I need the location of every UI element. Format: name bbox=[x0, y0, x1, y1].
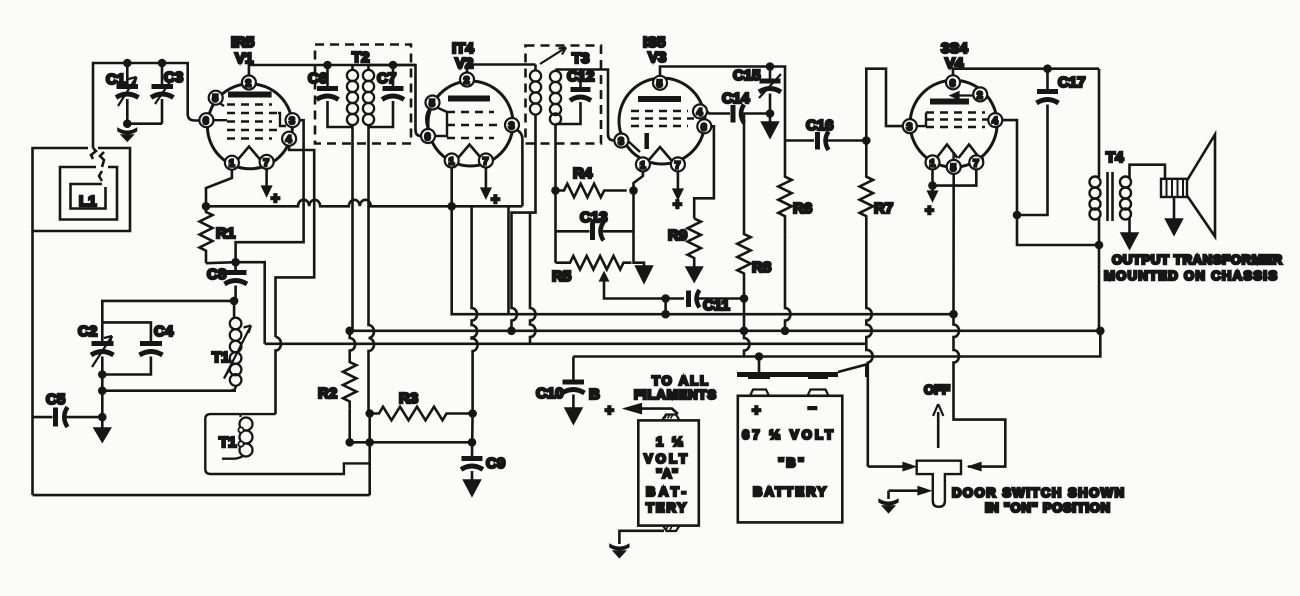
svg-text:R1: R1 bbox=[216, 225, 235, 242]
capacitor C4 bbox=[102, 322, 174, 374]
capacitor C9 bbox=[461, 414, 505, 497]
wire antenna top bbox=[93, 63, 200, 148]
wire T2 secondary lead lower segment to rail bbox=[368, 414, 371, 496]
ground below C2/C4 node bbox=[94, 428, 111, 442]
svg-text:−: − bbox=[808, 400, 817, 417]
wire T4 primary vertical bbox=[1098, 69, 1101, 177]
wire plate line corner down to C16 junction bbox=[770, 67, 785, 141]
pin 2 of V1 bbox=[242, 76, 256, 90]
pin 6 of V4 bbox=[946, 75, 960, 89]
tube V4 plate bbox=[930, 99, 969, 105]
capacitor C11 bbox=[689, 290, 745, 314]
wire V4 pin3 grid path from C16/R7 bbox=[866, 69, 903, 141]
pin 1 of V2 bbox=[445, 154, 459, 168]
capacitor C3 bbox=[151, 63, 183, 124]
node R8 on bus-1 bbox=[741, 328, 747, 334]
tube V4 filaments bbox=[937, 145, 958, 159]
pin 4 of V4 bbox=[988, 113, 1002, 127]
node C14/C15 junction bbox=[767, 111, 773, 117]
svg-text:R9: R9 bbox=[668, 227, 687, 244]
svg-text:IR5: IR5 bbox=[231, 34, 254, 51]
capacitor C7 bbox=[369, 65, 405, 127]
arrow V1 pin7 filament plus bbox=[265, 169, 268, 186]
pin 7 of V3 bbox=[671, 157, 685, 171]
svg-text:2: 2 bbox=[246, 79, 252, 90]
svg-text:MOUNTED ON CHASSIS: MOUNTED ON CHASSIS bbox=[1104, 268, 1277, 283]
pin 1 of V1 bbox=[225, 156, 239, 170]
node R2 top on bus-1 bbox=[347, 328, 353, 334]
wire V1 pin4 line hop over bus-2 bbox=[276, 337, 282, 414]
svg-text:6: 6 bbox=[425, 132, 431, 143]
svg-text:7: 7 bbox=[675, 160, 681, 171]
svg-text:+: + bbox=[605, 402, 614, 419]
tube V1 plate bbox=[228, 92, 272, 98]
svg-text:3: 3 bbox=[618, 137, 624, 148]
svg-text:BAT-: BAT- bbox=[646, 484, 686, 499]
wire V4 pin1 down bbox=[931, 169, 934, 185]
pin 1 of V4 bbox=[926, 155, 940, 169]
svg-text:C8: C8 bbox=[207, 266, 226, 283]
wire V1 pin4 staircase down bbox=[276, 146, 315, 337]
svg-text:B: B bbox=[589, 386, 600, 403]
wire B battery plus drop from B+ line bbox=[758, 357, 761, 373]
svg-text:T3: T3 bbox=[572, 50, 590, 67]
svg-text:1: 1 bbox=[449, 157, 455, 168]
ground at switch bbox=[879, 500, 898, 513]
wire to T1 oscillator coil bottom bbox=[102, 389, 236, 392]
pin 1 of V3 bbox=[636, 157, 650, 171]
svg-text:C13: C13 bbox=[580, 209, 608, 226]
transformer T4 core bbox=[1108, 172, 1113, 221]
node R3 right bbox=[470, 411, 476, 417]
node T3 primary on bus-1 bbox=[509, 328, 515, 334]
tube V2 grids (dashed) bbox=[447, 112, 499, 138]
tube V3 plate bbox=[638, 96, 681, 102]
svg-text:C5: C5 bbox=[46, 391, 65, 408]
capacitor C13 bbox=[556, 209, 634, 241]
wire V1 pin3 to oscillator staircase bbox=[236, 120, 304, 262]
wire T4 primary bottom to junction bbox=[1098, 218, 1101, 331]
pin 5 of V4 bbox=[947, 160, 961, 174]
pin 3 of V4 bbox=[903, 119, 917, 133]
battery A box bbox=[638, 420, 699, 525]
tube V3 diode plate bar bbox=[644, 133, 649, 149]
svg-text:2: 2 bbox=[464, 76, 470, 87]
svg-text:5: 5 bbox=[429, 99, 435, 110]
battery B box bbox=[738, 396, 843, 523]
wire switch left feed from R7 line bbox=[868, 465, 903, 468]
svg-text:C17: C17 bbox=[1058, 74, 1086, 91]
tube V3 pin3 internal diode lead bbox=[628, 141, 640, 152]
tube V4 grids (dashed) bbox=[926, 113, 990, 128]
capacitor C1 bbox=[106, 63, 139, 124]
node C8 bottom junction bbox=[231, 298, 237, 304]
node R2 bottom bbox=[347, 439, 353, 445]
wire V3 pin1 node down through C13 to ground arrow bbox=[634, 191, 645, 266]
node C5 right bbox=[99, 414, 105, 420]
T3 primary winding bbox=[530, 65, 541, 121]
svg-text:4: 4 bbox=[697, 107, 703, 118]
wire B+ lower line from C10 bbox=[573, 331, 1100, 357]
svg-text:3: 3 bbox=[289, 116, 295, 127]
arrow R5 wiper bbox=[603, 277, 606, 290]
resistor R1 bbox=[200, 206, 213, 263]
svg-text:1: 1 bbox=[930, 158, 936, 169]
node C11 drop on bus-0 bbox=[663, 311, 669, 317]
svg-text:C2: C2 bbox=[78, 323, 97, 340]
svg-text:5: 5 bbox=[213, 94, 219, 105]
arrow V3 pin7 filament plus bbox=[677, 171, 680, 189]
svg-text:4: 4 bbox=[992, 116, 998, 127]
wire R8 bottom through buses bbox=[744, 292, 750, 357]
oscillator coil T1 upper bbox=[212, 301, 251, 391]
pin 3 of V3 bbox=[614, 134, 628, 148]
capacitor C2 bbox=[78, 322, 114, 374]
svg-text:C1: C1 bbox=[106, 71, 125, 88]
wire R7 bottom down to switch with hops bbox=[866, 235, 872, 467]
svg-text:C7: C7 bbox=[377, 70, 396, 87]
svg-text:+: + bbox=[925, 202, 934, 219]
pin 7 of V4 bbox=[969, 155, 983, 169]
resistor R3 bbox=[370, 407, 473, 421]
arrow R9 bottom bbox=[693, 263, 696, 267]
pin 7 of V1 bbox=[260, 155, 274, 169]
tube V1 pin5 internal stub bbox=[218, 102, 224, 106]
svg-text:"A": "A" bbox=[656, 466, 678, 481]
wire T3 secondary bottom lead down to R4/C13/R5 bbox=[554, 125, 557, 263]
pin 3 of V1 bbox=[286, 113, 300, 127]
node C16 right junction bbox=[863, 138, 869, 144]
svg-text:T4: T4 bbox=[1106, 149, 1124, 166]
capacitor C15 trimmer bbox=[733, 67, 781, 114]
node C11 left drop bbox=[663, 296, 669, 302]
svg-text:C11: C11 bbox=[703, 297, 730, 314]
wire V2 pin3 down to A-line bbox=[517, 130, 522, 206]
battery B connector bar bbox=[737, 372, 838, 377]
wire V3 pin1 down to R4 node bbox=[634, 171, 643, 190]
node C2/C4 bottom bbox=[99, 372, 105, 378]
wire bus-0 filament line bbox=[452, 206, 954, 314]
svg-text:"B": "B" bbox=[778, 455, 804, 470]
wire voice coil down bbox=[1173, 197, 1176, 219]
svg-text:C3: C3 bbox=[164, 69, 183, 86]
svg-text:BATTERY: BATTERY bbox=[753, 484, 826, 499]
node C15 top bbox=[767, 64, 773, 70]
svg-text:+: + bbox=[673, 196, 682, 213]
tube V2 plate bbox=[448, 96, 490, 102]
wire V1 pin1 down to A-line bbox=[206, 170, 232, 207]
svg-text:TO ALL: TO ALL bbox=[652, 373, 708, 388]
svg-text:4: 4 bbox=[286, 135, 292, 146]
battery B terminal bumps bbox=[750, 390, 829, 396]
capacitor C14 bbox=[722, 90, 770, 123]
wire V3 pin4 to C14 bbox=[707, 111, 730, 113]
wire T3 area extra vertical to bus-2 bbox=[530, 213, 536, 344]
wire pin1-pin7 tie line bbox=[933, 169, 977, 185]
pin 5 of V1 bbox=[209, 91, 223, 105]
resistor R4 bbox=[556, 184, 627, 198]
ground arrow below detector node bbox=[636, 266, 653, 283]
svg-text:6: 6 bbox=[701, 122, 707, 133]
wire V2 pin5 tie to grid line bbox=[426, 110, 429, 130]
transformer T4 primary winding bbox=[1090, 177, 1101, 220]
node V4 pins 1-7 tie bbox=[930, 183, 936, 189]
arrow V2 pin7 filament plus bbox=[485, 168, 488, 189]
T3 secondary winding bbox=[550, 70, 561, 125]
capacitor C17 bbox=[1017, 66, 1086, 215]
tube V4 pin2 internal arrow bbox=[954, 94, 974, 96]
capacitor C10 with B label bbox=[536, 357, 600, 425]
node C3 top bbox=[159, 60, 165, 66]
node C7 top bbox=[390, 62, 396, 68]
door switch body bbox=[917, 461, 961, 507]
wire left long vertical from L1 to bottom rail bbox=[31, 231, 34, 495]
wire T2 primary bottom lead down to bus-1 bbox=[351, 144, 354, 331]
svg-text:3: 3 bbox=[509, 121, 515, 132]
svg-text:DOOR SWITCH SHOWN: DOOR SWITCH SHOWN bbox=[952, 485, 1124, 500]
node bus-1 end at T4 bbox=[1097, 328, 1103, 334]
svg-text:R4: R4 bbox=[573, 165, 593, 182]
resistor R7 bbox=[860, 141, 873, 235]
svg-text:R3: R3 bbox=[399, 390, 418, 407]
svg-text:T1: T1 bbox=[212, 349, 230, 366]
wire A-line (filament line) bbox=[206, 200, 522, 207]
arrow OFF direction bbox=[937, 412, 940, 448]
ground arrow below voice coil bbox=[1166, 219, 1183, 235]
pin 2 of V4 bbox=[973, 87, 987, 101]
node C1 top bbox=[124, 60, 130, 66]
wire C2 node vertical bbox=[101, 375, 104, 429]
capacitor C6 bbox=[308, 65, 353, 127]
wire R2 bottom line bbox=[350, 408, 472, 442]
resistor R8 bbox=[737, 114, 750, 292]
svg-text:6: 6 bbox=[950, 78, 956, 89]
loop antenna L1 bbox=[33, 148, 131, 231]
svg-text:T2: T2 bbox=[352, 49, 370, 66]
T2 secondary winding bbox=[363, 65, 374, 127]
speaker cone bbox=[1187, 135, 1215, 237]
svg-text:67 ½ VOLT: 67 ½ VOLT bbox=[742, 427, 833, 442]
wire V2 pin1 down to A-line bbox=[450, 168, 453, 207]
wire T2 secondary bottom lead down bbox=[369, 127, 375, 414]
svg-text:L1: L1 bbox=[79, 193, 97, 210]
node osc return bbox=[99, 388, 105, 394]
svg-text:IN "ON" POSITION: IN "ON" POSITION bbox=[985, 500, 1110, 515]
wire V3 plate pin5 up to detector line bbox=[660, 67, 770, 76]
node V2 pin1 A-line bbox=[449, 203, 455, 209]
arrow V4 pin1 filament plus bbox=[931, 186, 934, 191]
wire V4 pin5 down to bus-0 and switch bbox=[954, 174, 1006, 467]
T3 tuning arrow bbox=[540, 48, 566, 65]
wire R5 wiper to C11 bbox=[604, 290, 684, 299]
wire V4 pin6 plate lead up bbox=[953, 69, 1099, 76]
svg-text:5: 5 bbox=[951, 163, 957, 174]
svg-text:R5: R5 bbox=[552, 268, 571, 285]
tube V2 grid lead from pin 6 bbox=[428, 112, 447, 136]
tube V2 envelope bbox=[428, 81, 513, 166]
svg-text:1 ½: 1 ½ bbox=[656, 434, 683, 449]
svg-text:+: + bbox=[752, 402, 761, 419]
ground below battery A bbox=[610, 545, 629, 558]
IF transformer T2 shield box (dashed) bbox=[315, 45, 411, 144]
wire switch stem ground branch bbox=[889, 489, 919, 492]
pin 5 of V3 bbox=[653, 76, 667, 90]
tube V4 envelope bbox=[910, 80, 997, 167]
wire R1 bottom to C8 node bbox=[206, 262, 236, 263]
transformer T4 secondary winding bbox=[1120, 177, 1131, 220]
svg-text:7: 7 bbox=[483, 157, 489, 168]
svg-text:FILAMENTS: FILAMENTS bbox=[634, 387, 716, 402]
wire V3 pin6 to R9 bbox=[694, 126, 714, 218]
wire bottom rail bbox=[33, 494, 370, 497]
svg-text:7: 7 bbox=[263, 158, 269, 169]
wire bus-2 return line bbox=[265, 342, 867, 345]
capacitor C8 bbox=[207, 262, 247, 301]
battery A bottom terminal bbox=[663, 526, 680, 531]
battery B bar tabs bbox=[748, 375, 828, 379]
pin 5 of V2 bbox=[426, 96, 440, 110]
wire C8 node branch to bus-2 bbox=[236, 262, 265, 344]
wire oscillator line y=301 bbox=[102, 301, 234, 323]
tube V1 grid lead from pin 6 bbox=[206, 119, 227, 121]
node C9 top bbox=[469, 439, 475, 445]
wire T3 secondary top to V3 grid pin3 bbox=[581, 70, 615, 141]
resistor R5 volume control bbox=[556, 256, 632, 270]
arrow into switch left side bbox=[903, 463, 916, 471]
T2 primary winding bbox=[347, 65, 358, 144]
oscillator coil T1 lower box bbox=[205, 414, 369, 474]
tube V1 screen bracket to pin 3 bbox=[278, 113, 286, 126]
wire A-line drop to bus-0 bbox=[507, 206, 510, 314]
pin 6 of V2 bbox=[421, 129, 435, 143]
tube V1 envelope bbox=[207, 84, 292, 169]
svg-text:5: 5 bbox=[657, 79, 663, 90]
wire T4 secondary bottom bbox=[1128, 218, 1131, 233]
ground arrow below C15 bbox=[769, 114, 772, 123]
svg-text:1: 1 bbox=[640, 160, 646, 171]
svg-text:C4: C4 bbox=[154, 323, 174, 340]
wire C1-C3 bottoms bbox=[127, 122, 162, 125]
wire bus-1 B+ line bbox=[350, 329, 1101, 332]
resistor R9 bbox=[688, 219, 701, 264]
node T4 lead join bbox=[1096, 242, 1102, 248]
capacitor C12 bbox=[556, 68, 595, 124]
tube V3 filament bbox=[648, 147, 672, 161]
svg-text:R6: R6 bbox=[793, 200, 812, 217]
pin 4 of V3 bbox=[693, 104, 707, 118]
node C1 bottom bbox=[124, 121, 130, 127]
tube V2 pin5 internal stub bbox=[436, 107, 447, 112]
node R6 on bus-1 bbox=[782, 328, 788, 334]
node R4 right / V3 pin1 bbox=[631, 188, 637, 194]
wire T2 secondary top to V2 grid bbox=[393, 65, 421, 136]
svg-text:R7: R7 bbox=[874, 200, 893, 217]
pin 6 of V3 bbox=[697, 119, 711, 133]
wire A-line drop to R3 right bbox=[472, 206, 478, 413]
svg-text:C9: C9 bbox=[486, 455, 505, 472]
svg-text:VOLT: VOLT bbox=[644, 451, 687, 466]
pin 6 of V1 bbox=[199, 113, 213, 127]
tube V3 grids (dashed) bbox=[631, 111, 694, 126]
node C17 line tee on pin4 wire bbox=[1014, 212, 1020, 218]
svg-text:C16: C16 bbox=[806, 117, 834, 134]
svg-text:T1: T1 bbox=[219, 434, 237, 451]
wire T4 secondary top to voice coil bbox=[1130, 165, 1166, 179]
svg-text:2: 2 bbox=[977, 90, 983, 101]
pin 2 of V2 bbox=[460, 73, 474, 87]
svg-text:7: 7 bbox=[973, 158, 979, 169]
svg-text:TERY: TERY bbox=[646, 500, 686, 515]
svg-text:R8: R8 bbox=[752, 259, 771, 276]
node bus-0 end bbox=[951, 311, 957, 317]
IF transformer T3 shield box (dashed) bbox=[526, 46, 602, 144]
node R4 left bbox=[553, 188, 559, 194]
pin 4 of V1 bbox=[282, 132, 296, 146]
svg-text:6: 6 bbox=[203, 116, 209, 127]
pin 3 of V2 bbox=[505, 118, 519, 132]
wire V4 pin4 to T4 B+ bbox=[1002, 120, 1099, 245]
ground arrow below T4 secondary bbox=[1121, 233, 1138, 249]
svg-text:3: 3 bbox=[907, 122, 913, 133]
svg-text:OUTPUT TRANSFORMER: OUTPUT TRANSFORMER bbox=[1112, 252, 1283, 267]
svg-text:+: + bbox=[271, 190, 280, 207]
svg-text:C15: C15 bbox=[733, 67, 761, 84]
svg-text:C10: C10 bbox=[536, 385, 564, 402]
node R3 left bbox=[367, 411, 373, 417]
wire V2 plate pin2 to T3 primary bbox=[467, 65, 536, 73]
wire V1 plate pin2 to T2 top bbox=[249, 65, 416, 76]
capacitor C16 bbox=[785, 117, 866, 150]
speaker voice coil bbox=[1161, 179, 1187, 197]
battery A terminal top bbox=[662, 415, 680, 421]
pin 7 of V2 bbox=[479, 154, 493, 168]
tube V2 filament bbox=[458, 145, 481, 159]
node B battery drop on B+ line bbox=[756, 354, 762, 360]
wire T3 primary bottom jog down to bus-1 bbox=[512, 120, 536, 331]
wire C11 left drop to bus-0 bbox=[664, 299, 667, 315]
tube V1 filament bbox=[238, 147, 261, 161]
wire battery B minus to switch line bbox=[838, 365, 866, 378]
wire R6 bottom to bus-1 bbox=[785, 235, 791, 331]
svg-text:C6: C6 bbox=[308, 70, 327, 87]
tube V4 pin5 internal stub bbox=[952, 152, 954, 160]
ground below C1 bbox=[118, 124, 137, 141]
tube V4 grid lead from pin 3 bbox=[917, 113, 926, 127]
node T2 lead on R2 bottom line bbox=[367, 439, 373, 445]
tube V3 envelope bbox=[619, 78, 705, 164]
capacitor C5 bbox=[33, 391, 103, 427]
node C8 top bbox=[233, 259, 239, 265]
node C11 right on R8 line bbox=[741, 296, 747, 302]
svg-text:C14: C14 bbox=[722, 90, 750, 107]
resistor R6 bbox=[778, 141, 791, 235]
svg-text:V3: V3 bbox=[648, 49, 666, 66]
tube V1 grids (dashed) bbox=[227, 105, 278, 139]
node R1 top bbox=[203, 203, 209, 209]
resistor R2 bbox=[343, 331, 356, 409]
wire battery A to ground bbox=[619, 531, 664, 544]
svg-text:1: 1 bbox=[229, 159, 235, 170]
node C6 top bbox=[325, 62, 331, 68]
svg-text:R2: R2 bbox=[318, 385, 337, 402]
arrow into switch right side bbox=[969, 463, 982, 471]
svg-text:OFF: OFF bbox=[924, 382, 950, 397]
